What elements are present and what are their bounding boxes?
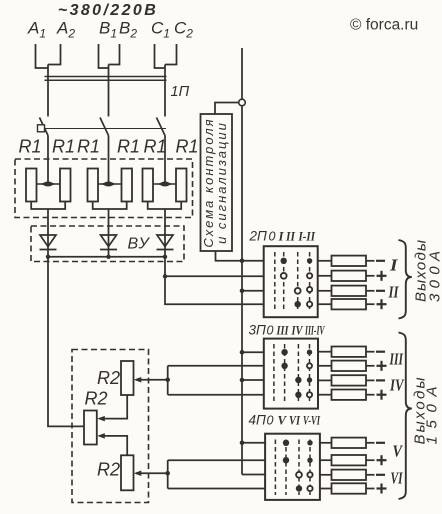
svg-text:3П: 3П: [249, 323, 267, 338]
output link II minus: [318, 286, 385, 296]
svg-text:V-VI: V-VI: [303, 414, 321, 428]
junction diode B: [106, 255, 110, 259]
svg-text:R1: R1: [52, 137, 75, 157]
junction bus / 2P row3: [240, 289, 245, 294]
switch block 4P: [265, 434, 320, 500]
main bus upper segment: [241, 48, 243, 99]
svg-text:III-IV: III-IV: [304, 324, 325, 338]
label Vyhody 150A: [412, 378, 429, 445]
output link VI plus: [320, 483, 387, 493]
wire tap to R2 top: [136, 379, 168, 381]
busbar line 2: [45, 79, 167, 81]
R2 riser for 3P: [167, 366, 169, 395]
diode phase A: [40, 235, 57, 257]
resistor R1 element 5: [143, 169, 154, 202]
svg-text:I: I: [389, 256, 398, 275]
svg-text:0: 0: [267, 414, 274, 428]
output link V minus: [320, 438, 385, 448]
junction 3P riser tap: [165, 378, 170, 383]
wire phase C drop: [164, 65, 166, 117]
knife switch 1P blade A: [40, 118, 49, 136]
wire tap to R2 bottom: [136, 472, 168, 474]
resistor R1 element 1: [26, 169, 37, 202]
2P position column 2: [283, 252, 285, 312]
brace outputs 300A: [399, 240, 412, 319]
brace outputs 150A: [399, 333, 412, 500]
svg-text:ВУ: ВУ: [128, 236, 151, 253]
wire control box bottom to bus: [216, 251, 243, 261]
output link III minus: [318, 347, 385, 357]
label switch 4P positions: [249, 413, 321, 428]
knife switch 1P blade B: [100, 118, 109, 136]
resistor R1 element 2: [60, 169, 71, 202]
wire R1 pair A to diode: [31, 202, 65, 236]
4P position column 3: [298, 440, 300, 496]
4P position column 4: [309, 440, 311, 496]
resistor block R1 dashed box: [15, 159, 193, 218]
resistor R2 bottom: [121, 455, 134, 490]
2P position column 4: [309, 252, 311, 312]
rectifier VU dashed box: [31, 226, 184, 262]
label switch 2P positions: [249, 229, 316, 244]
svg-text:~380/220В: ~380/220В: [58, 2, 158, 19]
output link IV minus: [318, 375, 385, 385]
wire switch C to R1: [164, 136, 166, 185]
resistor R1 element 4: [122, 169, 133, 202]
wire control box to node: [215, 103, 239, 115]
svg-text:R1: R1: [176, 137, 199, 157]
wire R2 riser to 3P row4: [168, 394, 264, 396]
junction bus / 3P row3: [240, 378, 245, 383]
3P position column 1: [273, 344, 275, 403]
2P position column 1: [274, 252, 276, 312]
resistor R1 element 3: [88, 169, 99, 202]
junction VU-2P row2: [163, 274, 167, 278]
svg-text:4П: 4П: [249, 413, 267, 428]
wire VU to R2 block: [48, 257, 84, 427]
4P position column 2: [285, 440, 287, 496]
svg-text:III: III: [389, 350, 404, 369]
4P position column 1: [274, 440, 276, 496]
svg-text:VI: VI: [391, 469, 403, 488]
junction bus / 2P row1: [240, 259, 245, 264]
svg-text:R1: R1: [77, 137, 100, 157]
label Schema kontrolya i signalizacii: [201, 117, 229, 247]
knife switch 1P blade C: [157, 118, 166, 136]
output link II plus: [318, 299, 387, 309]
junction bus / 4P row1: [240, 441, 245, 446]
node circle on bus: [239, 99, 246, 106]
svg-text:VI: VI: [289, 414, 301, 428]
2P position column 3: [297, 252, 299, 312]
wire R2 riser to 3P row2: [168, 365, 264, 367]
4P contact dots: [283, 440, 313, 492]
wire bus to 2P row1: [242, 260, 264, 262]
R2 riser for 4P: [167, 460, 169, 488]
wire phase B drop: [108, 65, 110, 117]
3P contact dots: [281, 349, 312, 398]
main bus lower segment: [241, 106, 243, 475]
wire terminal B1 lead: [99, 44, 109, 68]
DC cathode bus: [48, 256, 165, 258]
wire bus to 2P row3: [242, 290, 264, 292]
wire VU to 2P row2: [165, 275, 264, 277]
label Vyhody 300A: [413, 240, 430, 302]
output link V plus: [320, 455, 387, 465]
wire terminal C2 lead: [165, 44, 177, 65]
output link VI minus: [320, 470, 385, 480]
svg-text:R2: R2: [97, 460, 120, 480]
switch linkage: [39, 128, 167, 130]
svg-text:© forca.ru: © forca.ru: [350, 17, 418, 34]
wire R1 pair B to diode: [93, 202, 127, 236]
svg-text:R1: R1: [144, 137, 167, 157]
svg-text:III: III: [276, 324, 290, 338]
wire R2 bottom to R2 mid: [100, 436, 128, 455]
svg-text:R1: R1: [117, 137, 140, 157]
svg-text:I-II: I-II: [298, 230, 316, 244]
wire VU to 2P row4: [165, 257, 264, 304]
diode phase C: [157, 235, 174, 257]
R1 wiper taps phase B: [98, 181, 122, 186]
svg-text:R2: R2: [85, 389, 108, 409]
output link I minus: [318, 256, 385, 266]
resistor R1 element 6: [176, 169, 187, 202]
3P position column 4: [309, 344, 311, 403]
svg-text:1П: 1П: [171, 84, 190, 100]
wire bus to 3P row1: [242, 351, 264, 353]
wire R2 riser to 4P row4: [168, 488, 265, 490]
main bus elbow to 4P row3: [242, 474, 265, 476]
svg-text:II: II: [285, 230, 296, 244]
junction diode C: [163, 255, 167, 259]
3P position column 3: [297, 344, 299, 403]
output link III plus: [318, 361, 387, 371]
svg-text:IV: IV: [291, 324, 304, 338]
resistor block R2 dashed box: [72, 350, 149, 503]
diode phase B: [100, 235, 117, 257]
svg-text:0: 0: [269, 230, 276, 244]
label switch 3P positions: [249, 323, 326, 338]
R1 wiper taps phase C: [153, 181, 176, 186]
wire bus to 3P row3: [242, 379, 264, 381]
2P contact dots: [281, 258, 313, 308]
control & signalling unit box: [201, 114, 233, 251]
wire terminal C1 lead: [155, 44, 166, 68]
wire R2 top to R2 mid: [100, 395, 128, 419]
svg-text:0: 0: [267, 324, 274, 338]
resistor R2 top: [121, 361, 134, 395]
junction diode A: [46, 255, 50, 259]
wire R2 riser to 4P row2: [168, 459, 265, 461]
output link I plus: [318, 271, 387, 281]
svg-text:R1: R1: [19, 137, 42, 157]
svg-text:II: II: [388, 283, 399, 302]
switch block 3P: [264, 339, 318, 409]
resistor R2 mid: [84, 411, 97, 445]
wire bus to 4P row1: [242, 442, 265, 444]
wire phase A drop: [47, 65, 49, 117]
wire terminal A2 lead: [48, 44, 61, 65]
junction 4P riser tap: [165, 471, 170, 476]
3P position column 2: [284, 344, 286, 403]
junction bus / 3P row1: [240, 350, 245, 355]
switch handle: [38, 125, 45, 132]
wire switch B to R1: [108, 136, 110, 185]
svg-text:R2: R2: [97, 368, 120, 388]
R1 wiper taps phase A: [37, 181, 61, 186]
wire terminal A1 lead: [36, 44, 49, 68]
wire R1 pair C to diode: [148, 202, 182, 236]
svg-text:2П: 2П: [249, 229, 268, 244]
wire terminal B2 lead: [109, 44, 120, 65]
svg-text:IV: IV: [389, 376, 405, 395]
output link IV plus: [318, 390, 387, 400]
switch block 2P: [264, 246, 318, 317]
svg-text:и сигнализации: и сигнализации: [214, 121, 229, 244]
wire switch A to R1: [47, 136, 49, 185]
busbar line 1: [45, 76, 167, 78]
